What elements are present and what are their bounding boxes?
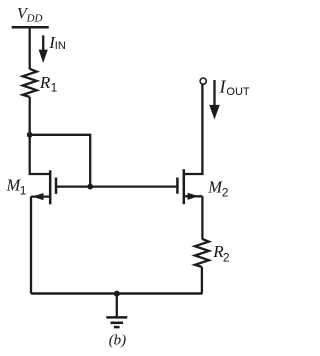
svg-text:IN: IN — [55, 40, 66, 52]
svg-text:1: 1 — [20, 184, 27, 198]
current arrow IIN — [39, 35, 48, 63]
resistor R1 — [23, 69, 37, 97]
label R1 — [39, 73, 58, 94]
junction dot at ground tap — [114, 291, 120, 297]
svg-text:I: I — [219, 77, 227, 97]
label R2 — [212, 242, 230, 265]
VDD supply rail bar — [12, 26, 49, 29]
gate wire M1 to M2 — [57, 185, 176, 187]
wire VDD bar to R1 top — [29, 27, 31, 69]
ground rail wire — [31, 292, 202, 295]
svg-text:OUT: OUT — [226, 86, 250, 98]
current arrow IOUT — [209, 80, 220, 120]
svg-text:DD: DD — [26, 13, 43, 25]
label M2 — [207, 177, 229, 199]
output terminal circle — [200, 78, 206, 84]
wire R2 bottom to ground rail — [201, 267, 203, 294]
junction dot on gate wire — [87, 184, 93, 190]
transistor M2 — [177, 169, 202, 204]
svg-text:2: 2 — [222, 185, 229, 199]
wire M2 source to R2 top — [201, 196, 203, 239]
wire M1 source down to ground rail — [30, 197, 32, 294]
node A junction dot — [27, 132, 33, 138]
svg-text:R: R — [39, 73, 51, 92]
svg-text:(b): (b) — [109, 332, 127, 348]
wire terminal to M2 drain — [184, 84, 203, 174]
label IIN — [48, 33, 66, 52]
transistor M1 — [31, 170, 56, 204]
resistor R2 — [195, 239, 209, 267]
svg-text:2: 2 — [223, 250, 230, 264]
node VDD label — [17, 6, 43, 25]
label IOUT — [219, 77, 250, 98]
wire node A down to M1 drain — [30, 135, 51, 174]
ground symbol — [106, 294, 127, 328]
svg-text:1: 1 — [51, 80, 58, 94]
wire R1 bottom to node A — [29, 97, 31, 135]
label M1 — [6, 176, 27, 198]
wire node A to gate feed (right then down) — [30, 135, 90, 187]
